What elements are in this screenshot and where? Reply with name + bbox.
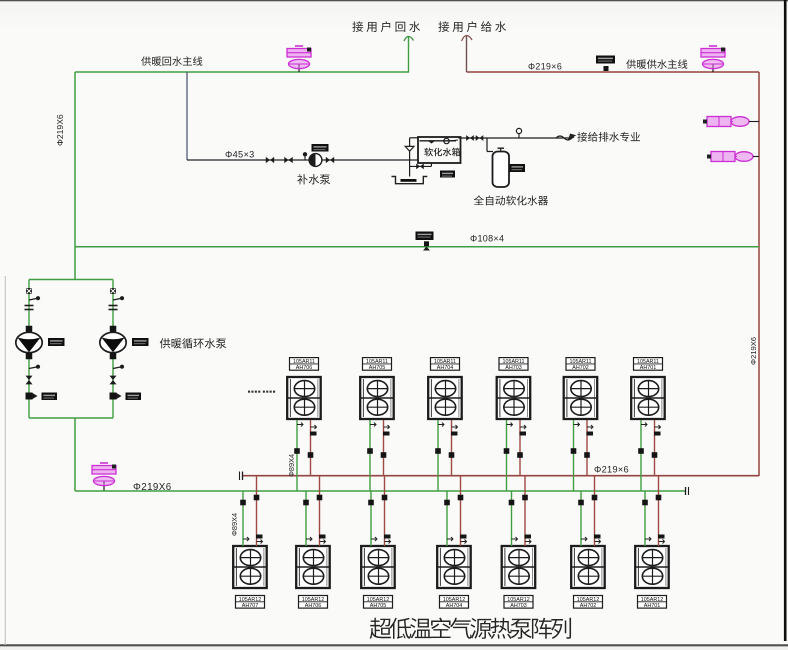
heat pump unit AH703 (top row): [499, 358, 528, 371]
thermometer branch 1: [29, 299, 37, 301]
heat pump unit AH707 (bottom row): [236, 596, 265, 609]
magenta auto air vent on supply main: [712, 65, 714, 73]
svg-text:Φ108×4: Φ108×4: [470, 234, 504, 244]
label 接给排水专业: [577, 132, 587, 142]
heat pump unit AH705 (top row): [363, 358, 392, 371]
pump outlet flange 1: [26, 353, 33, 360]
svg-text:Φ219×6: Φ219×6: [594, 465, 629, 475]
label 供暖供水主线: [626, 59, 636, 68]
magenta valve on bottom green main: [103, 482, 105, 492]
magenta valve pair upper (right vertical): [707, 117, 731, 127]
label 供暖回水主线: [141, 56, 151, 65]
heat pump unit AH704 (top row): [431, 358, 460, 371]
svg-text:AH702: AH702: [580, 603, 596, 609]
svg-text:105AR11: 105AR11: [366, 359, 388, 365]
svg-text:105AR11: 105AR11: [637, 359, 659, 365]
svg-text:Φ219X6: Φ219X6: [133, 482, 172, 493]
tank water level line: [420, 140, 457, 142]
svg-text:105AR11: 105AR11: [569, 359, 591, 365]
pump 补水泵: [309, 154, 322, 167]
pipe: bottom red main: [243, 475, 759, 477]
tank drain valve: [430, 163, 432, 166]
svg-text:AH706: AH706: [305, 603, 321, 609]
thermometer branch 2: [113, 299, 121, 301]
heat pump unit AH706 (top row): [290, 358, 319, 371]
svg-text:Φ219×6: Φ219×6: [528, 62, 562, 72]
svg-text:AH705: AH705: [370, 603, 386, 609]
funnel at tank inlet: [410, 137, 418, 139]
label 接用户给水: [438, 21, 449, 32]
label 接用户回水: [352, 21, 363, 32]
heat pump unit AH702 (bottom row): [574, 596, 603, 609]
heat pump unit AH701 (bottom row): [638, 596, 667, 609]
svg-text:105AR11: 105AR11: [434, 359, 456, 365]
pipe: heating return main left vertical: [74, 72, 76, 280]
check valve branch 2: [110, 393, 117, 400]
gauge at pump suction: [304, 156, 306, 160]
svg-text:105AR12: 105AR12: [302, 597, 324, 603]
tank float valve: [444, 138, 449, 143]
bottom border line: [0, 644, 788, 646]
pump outlet flange 2: [110, 353, 117, 360]
valve on makeup line 2: [284, 157, 292, 163]
title 超低温空气源热泵阵列: [370, 618, 392, 639]
softener 全自动软化水器 vessel: [493, 152, 510, 188]
svg-text:Φ89X4: Φ89X4: [287, 454, 296, 477]
pipe: drop to softener: [486, 138, 488, 152]
heat pump unit AH701 (top row): [634, 358, 663, 371]
svg-text:Φ219X6: Φ219X6: [55, 114, 65, 146]
pipe: heating return main horizontal: [75, 71, 409, 73]
pipe: pump loop top: [29, 279, 113, 281]
pipe: pump loop bottom: [29, 417, 113, 419]
label 全自动软化水器: [474, 195, 484, 205]
svg-text:Φ89X4: Φ89X4: [230, 513, 239, 536]
svg-text:AH706: AH706: [296, 365, 312, 371]
svg-text:AH707: AH707: [242, 603, 258, 609]
svg-text:AH701: AH701: [644, 603, 660, 609]
svg-text:AH703: AH703: [505, 365, 521, 371]
pipe: green main Φ108X4: [75, 246, 759, 248]
pipe: pump loop right: [112, 280, 114, 419]
heat pump unit AH705 (bottom row): [364, 596, 393, 609]
valve top branch 1: [26, 288, 32, 294]
instrument on supply main: [596, 56, 615, 64]
top border line: [0, 0, 788, 2]
pipe: heating supply main: [467, 71, 760, 73]
valve top branch 2: [110, 288, 116, 294]
instrument beside softener: [510, 164, 526, 172]
svg-text:AH702: AH702: [572, 365, 588, 371]
pipe: makeup horizontal: [187, 159, 418, 161]
tank 软化水箱 body: [418, 137, 461, 163]
circulation pump P2: [100, 332, 126, 352]
pump inlet flange 1: [26, 326, 33, 333]
instrument pump 2: [132, 338, 149, 346]
pipe: right supply vertical: [758, 72, 760, 476]
pipe: loop feed vertical: [74, 418, 76, 491]
svg-text:105AR12: 105AR12: [367, 597, 389, 603]
instrument above makeup pump: [312, 144, 329, 152]
left scan edge line: [4, 276, 6, 645]
instrument on green main: [416, 232, 434, 241]
svg-text:Φ219X6: Φ219X6: [749, 337, 758, 365]
svg-text:105AR12: 105AR12: [443, 597, 465, 603]
thermometer below pump 1: [29, 367, 37, 369]
svg-text:AH703: AH703: [510, 603, 526, 609]
svg-text:AH705: AH705: [369, 365, 385, 371]
svg-text:AH704: AH704: [446, 603, 462, 609]
svg-text:Φ45×3: Φ45×3: [225, 150, 255, 160]
valve pair on outlet: [466, 135, 474, 141]
right border line: [784, 0, 787, 641]
svg-text:105AR12: 105AR12: [239, 597, 261, 603]
svg-text:AH701: AH701: [640, 365, 656, 371]
drain pit: [392, 177, 428, 184]
circulation pump P1: [16, 332, 42, 352]
pipe: tank top outlet: [459, 137, 573, 139]
check valve after pump: [326, 157, 334, 163]
svg-text:105AR12: 105AR12: [577, 597, 599, 603]
label 供暖循环水泵: [160, 338, 171, 348]
flange branch 1: [25, 305, 34, 307]
pump inlet flange 2: [110, 326, 117, 333]
continuation dots: [248, 391, 250, 393]
heat pump unit AH702 (top row): [566, 358, 595, 371]
thermometer below pump 2: [113, 367, 121, 369]
instrument pump 1: [48, 338, 65, 346]
svg-text:AH704: AH704: [437, 365, 453, 371]
pipe: riser user supply + arrow: [466, 36, 468, 72]
tank label 软化水箱: [424, 148, 433, 157]
pipe: riser to user return + arrow: [408, 37, 410, 72]
gauge on outlet: [518, 134, 520, 139]
pipe: makeup vertical from return main: [186, 72, 188, 160]
valve below pump 1: [25, 376, 32, 385]
instrument below tank: [440, 171, 455, 178]
check valve branch 1: [26, 393, 33, 400]
heat pump unit AH706 (bottom row): [299, 596, 328, 609]
green main end tick: [685, 487, 687, 495]
heat pump unit AH703 (bottom row): [504, 596, 533, 609]
valve on makeup line 1: [266, 157, 274, 163]
pipe: pump loop left: [28, 280, 30, 419]
svg-text:105AR11: 105AR11: [293, 359, 315, 365]
magenta auto air vent on return main: [298, 65, 300, 73]
pipe: bottom green main Φ219X6: [75, 490, 686, 492]
flange branch 2: [109, 305, 118, 307]
svg-text:105AR12: 105AR12: [641, 597, 663, 603]
valve below pump 2: [109, 376, 116, 385]
line break + arrow 接给排水专业: [556, 136, 574, 140]
heat pump unit AH704 (bottom row): [440, 596, 469, 609]
svg-text:105AR11: 105AR11: [502, 359, 524, 365]
red main end tick: [242, 472, 244, 481]
svg-text:105AR12: 105AR12: [507, 597, 529, 603]
label 补水泵: [297, 174, 308, 184]
magenta valve pair lower (right vertical): [711, 152, 735, 162]
